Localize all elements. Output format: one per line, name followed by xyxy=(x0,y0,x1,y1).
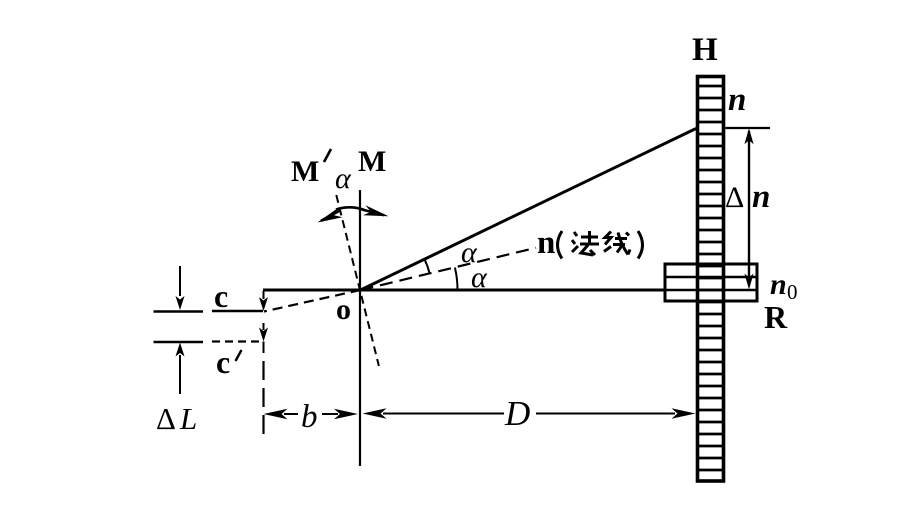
dimension D arrows xyxy=(363,408,387,418)
rotation arc between M' and M xyxy=(336,207,364,209)
svg-text:D: D xyxy=(504,394,530,433)
svg-text:n: n xyxy=(752,179,770,215)
dimension Delta L upper arrow xyxy=(179,266,181,296)
ruler H (scale) xyxy=(698,77,724,482)
svg-text:H: H xyxy=(692,32,718,68)
angle alpha arc 2 (normal to axis) xyxy=(455,268,458,291)
telescope reticle box R xyxy=(665,264,757,301)
svg-text:α: α xyxy=(335,162,352,195)
arrow down to level c' xyxy=(263,323,265,330)
svg-text:n: n xyxy=(728,82,746,118)
svg-text:b: b xyxy=(301,399,318,435)
dashed sight ray to c xyxy=(264,290,361,312)
svg-text:Δ: Δ xyxy=(156,401,176,436)
dimension Delta L lower arrow xyxy=(176,343,185,357)
dimension arrow Delta n xyxy=(748,131,750,285)
svg-text:α: α xyxy=(471,261,488,294)
svg-text:M: M xyxy=(291,155,319,188)
svg-text:n: n xyxy=(537,225,555,261)
ruler graduations xyxy=(696,86,725,470)
svg-text:0: 0 xyxy=(787,280,798,304)
CJK glyph fa xyxy=(572,231,599,255)
tick at reading n xyxy=(726,127,771,129)
level c line left xyxy=(154,310,204,313)
svg-text:c: c xyxy=(214,278,228,314)
svg-text:R: R xyxy=(764,299,788,335)
normal line n (dashed) xyxy=(361,248,537,290)
arc arrowhead left xyxy=(318,208,343,223)
main horizontal sight line xyxy=(263,289,665,292)
svg-text:o: o xyxy=(336,293,351,326)
dimension b arrows xyxy=(264,409,288,419)
CJK glyph xian xyxy=(604,232,630,255)
svg-text:n: n xyxy=(770,268,787,301)
reflected ray to n xyxy=(361,129,697,291)
angle alpha arc 1 (ray to normal) xyxy=(424,259,429,273)
level c line mid xyxy=(212,310,263,313)
arrow down to level c xyxy=(263,291,265,299)
arc arrowhead right xyxy=(363,205,389,216)
mirror M' tilted dashed line xyxy=(336,195,379,366)
svg-text:M: M xyxy=(358,145,386,178)
mirror M vertical line xyxy=(359,190,361,466)
level c' dashed segment xyxy=(212,340,262,342)
svg-text:Δ: Δ xyxy=(725,181,744,214)
svg-text:L: L xyxy=(179,401,197,436)
svg-text:c: c xyxy=(216,344,230,380)
level c' line left xyxy=(154,341,204,344)
long dashed vertical at c xyxy=(262,361,264,438)
